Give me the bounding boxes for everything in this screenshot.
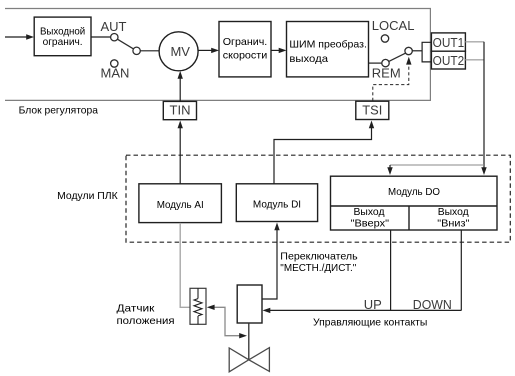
wire speed limiter to PWM with arrow — [271, 48, 287, 53]
wire PWM to REM contact — [369, 62, 382, 64]
block PWM output converter (ШИМ преобраз. выхода) — [287, 22, 369, 77]
block TSI — [356, 101, 389, 119]
cell Выход "Вниз" — [437, 206, 469, 229]
block OUT1 — [431, 33, 465, 51]
svg-text:MV: MV — [170, 44, 190, 59]
svg-text:скорости: скорости — [223, 49, 268, 61]
wire arrow into DO (left) — [387, 165, 392, 175]
svg-text:Датчик: Датчик — [117, 302, 155, 314]
wire limiter to AUT contact — [91, 36, 110, 38]
switch contact REM — [382, 59, 389, 66]
wire common contact to MV — [140, 50, 159, 52]
wire Модуль AI to TIN with arrow — [178, 121, 183, 184]
block TIN — [163, 101, 196, 119]
valve stem — [248, 323, 250, 360]
svg-text:Выход: Выход — [438, 206, 469, 218]
label Датчик положения — [117, 302, 175, 327]
control contacts line with arrow into actuator — [263, 308, 462, 313]
switch common contact (AUT/MAN) — [133, 47, 140, 54]
position sensor potentiometer (датчик положения) — [190, 288, 206, 324]
wire OUT down to Модуль DO with arrow — [481, 42, 486, 175]
svg-text:REM: REM — [372, 66, 401, 81]
wire TIN to MV with arrow — [178, 71, 183, 102]
svg-text:Модули ПЛК: Модули ПЛК — [57, 190, 118, 202]
wire OUT2 stub (gray) — [465, 59, 484, 61]
svg-text:Переключатель: Переключатель — [280, 250, 358, 262]
block Модуль DI — [236, 184, 317, 222]
svg-text:TSI: TSI — [362, 103, 382, 118]
switch contact LOCAL — [381, 35, 388, 42]
svg-text:AUT: AUT — [101, 19, 127, 34]
block Модуль DO — [331, 176, 498, 230]
svg-text:"Вверх": "Вверх" — [351, 217, 390, 229]
wire MV to speed limiter with arrow — [198, 48, 219, 53]
dashed control line TSI to LOCAL/REM switch with arrow — [373, 57, 412, 101]
wire Модуль DI to TSI with arrow — [274, 121, 374, 184]
svg-text:"МЕСТН./ДИСТ.": "МЕСТН./ДИСТ." — [280, 262, 356, 274]
controller block boundary (Блок регулятора, open on left) — [5, 9, 430, 101]
block OUT2 — [431, 51, 465, 69]
valve body (two triangles) — [229, 348, 269, 372]
svg-text:OUT1: OUT1 — [433, 35, 465, 50]
svg-text:Модуль DO: Модуль DO — [388, 186, 440, 198]
svg-text:DOWN: DOWN — [413, 297, 452, 312]
switch contact AUT — [111, 34, 118, 41]
OUT bracket — [422, 42, 431, 62]
svg-text:Блок регулятора: Блок регулятора — [19, 104, 99, 116]
svg-text:OUT2: OUT2 — [433, 53, 465, 68]
svg-text:Модуль DI: Модуль DI — [253, 198, 301, 210]
svg-text:Управляющие контакты: Управляющие контакты — [313, 317, 427, 329]
block MV (manual value) — [159, 32, 198, 71]
actuator block (local/remote switch box) — [237, 285, 262, 323]
label Переключатель "МЕСТН./ДИСТ." — [280, 250, 358, 274]
cell Выход "Вверх" — [351, 206, 390, 229]
svg-text:UP: UP — [364, 297, 382, 312]
svg-text:TIN: TIN — [170, 103, 191, 118]
PLC modules dashed boundary (Модули ПЛК) — [126, 155, 510, 242]
svg-text:LOCAL: LOCAL — [372, 18, 415, 33]
block speed limiter (Огранич. скорости) — [219, 22, 271, 77]
svg-text:огранич.: огранич. — [43, 36, 83, 48]
wire branch to DO left arrow (gray connector) — [390, 164, 484, 166]
wire local/remote switch to Модуль DI with arrow — [262, 223, 280, 300]
block output limiter (Выходной огранич.) — [34, 17, 91, 56]
wire Выход Вниз down to contacts line — [460, 230, 462, 310]
switch contact MAN — [111, 60, 118, 67]
svg-text:Выход: Выход — [354, 206, 385, 218]
svg-text:MAN: MAN — [101, 66, 130, 81]
svg-text:ШИМ преобраз.: ШИМ преобраз. — [289, 39, 367, 51]
switch blade REM to common — [389, 53, 406, 61]
wire OUT1 stub (gray) — [465, 41, 484, 43]
wire input with arrow — [5, 34, 34, 39]
switch blade AUT to common — [117, 39, 133, 49]
block Модуль AI — [139, 184, 222, 223]
svg-text:положения: положения — [117, 315, 175, 327]
svg-text:"Вниз": "Вниз" — [437, 217, 469, 229]
switch common contact (LOCAL/REM) — [405, 47, 412, 54]
wire Модуль AI to position sensor (gray) — [180, 223, 190, 307]
mechanical link valve stem to potentiometer wiper (gray with arrows) — [207, 305, 247, 339]
svg-text:Модуль AI: Модуль AI — [157, 199, 204, 211]
wire Выход Вверх down to contacts line — [390, 230, 392, 310]
svg-text:выхода: выхода — [289, 53, 328, 65]
svg-text:Огранич.: Огранич. — [223, 36, 268, 48]
wire common to OUT bracket — [412, 50, 422, 52]
